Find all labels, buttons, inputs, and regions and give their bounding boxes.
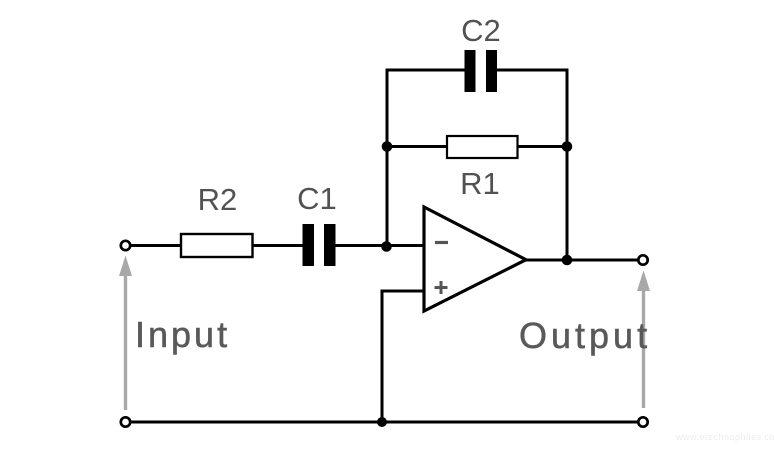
node feedback right (R1/C2 right junction) <box>562 141 573 152</box>
resistor R2 <box>181 234 253 257</box>
svg-text:R2: R2 <box>198 182 238 217</box>
wire bottom rail <box>131 421 638 424</box>
node output junction <box>562 255 573 266</box>
capacitor C1 <box>303 224 336 266</box>
svg-text:C1: C1 <box>297 181 337 216</box>
input arrow <box>119 256 132 411</box>
input terminal <box>121 241 130 250</box>
wire C2 to right vertical down to output <box>497 70 567 260</box>
output arrow <box>637 271 650 409</box>
svg-text:R1: R1 <box>460 166 500 201</box>
svg-text:Output: Output <box>519 315 651 356</box>
svg-text:Input: Input <box>135 314 230 355</box>
wire non-inverting input to ground rail <box>382 291 424 422</box>
wire C1 to op-amp inverting input <box>335 244 424 247</box>
wire op-amp output to output terminal <box>526 259 638 262</box>
wire input to R2 <box>130 244 181 247</box>
svg-text:www.etechnophiles.com: www.etechnophiles.com <box>675 432 774 442</box>
node feedback left (R1/C2 left junction) <box>382 141 393 152</box>
node ground junction <box>377 417 387 427</box>
output terminal <box>638 255 647 264</box>
svg-text:C2: C2 <box>461 13 501 48</box>
wire node A to R1 <box>387 145 447 148</box>
capacitor C2 <box>465 50 498 92</box>
op-amp U1 <box>424 207 526 311</box>
resistor R1 <box>447 136 518 158</box>
bottom-right terminal <box>638 417 647 426</box>
node A (inverting input junction) <box>381 241 392 252</box>
wire node A up and along top to C2 <box>387 70 465 247</box>
wire R1 to right vertical <box>517 145 567 148</box>
wire R2 to C1 <box>252 244 303 247</box>
bottom-left terminal <box>121 417 130 426</box>
